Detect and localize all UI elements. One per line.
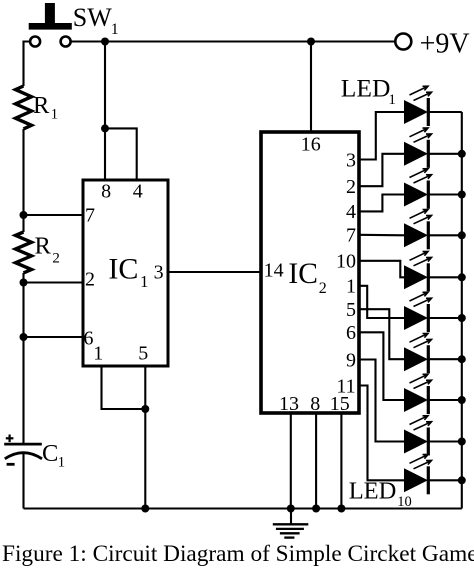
wire pin 1 to node E: [102, 366, 146, 409]
junction cathode rail LED4: [458, 231, 466, 239]
svg-text:6: 6: [346, 322, 356, 344]
pin 6 label IC2: [346, 322, 356, 344]
label LED10: [349, 477, 412, 510]
switch SW1: [29, 3, 72, 47]
resistor R1: [16, 86, 32, 129]
svg-text:1: 1: [140, 272, 149, 291]
wire node A to R2: [22, 215, 24, 232]
svg-text:9: 9: [346, 349, 356, 371]
pin 8 label IC2: [310, 393, 320, 415]
wire switch left lead: [24, 42, 31, 87]
pin 7 label IC1: [85, 204, 95, 226]
svg-text:3: 3: [154, 261, 164, 283]
svg-text:1: 1: [51, 106, 59, 122]
junction cathode rail LED5: [458, 273, 466, 281]
junction node E (pins 1-5): [141, 405, 149, 413]
svg-text:3: 3: [346, 149, 356, 171]
wire pin 7 to LED4: [359, 234, 405, 237]
wire bottom rail: [24, 507, 462, 509]
LED D1: [405, 86, 462, 126]
wire pin 15 to ground rail: [340, 413, 342, 509]
wire pin 1 to LED6: [359, 286, 405, 318]
junction cathode rail LED6: [458, 314, 466, 322]
wire pin6 stub: [24, 336, 84, 338]
svg-text:1: 1: [58, 455, 66, 471]
wire right cathode rail: [461, 112, 463, 509]
svg-text:C: C: [42, 440, 58, 467]
wire node B to node C: [22, 283, 24, 338]
LED D10: [405, 455, 462, 495]
label SW1: [73, 3, 119, 38]
wire R1 to node A: [22, 129, 24, 215]
pin 4 label IC2: [346, 201, 356, 223]
wire pin2 stub: [24, 281, 84, 283]
pin 2 label IC1: [85, 268, 95, 290]
pin 16 label IC2: [301, 133, 321, 155]
junction node pin8 ground: [312, 505, 320, 513]
LED D9: [405, 416, 462, 456]
svg-text:14: 14: [264, 259, 284, 281]
wire top rail: [71, 40, 396, 42]
label IC2: [288, 258, 326, 297]
counter U2 IC2 box: [261, 132, 359, 413]
junction cathode rail LED8: [458, 396, 466, 404]
junction cathode rail LED10: [458, 476, 466, 484]
pin 1 label IC2: [346, 276, 356, 298]
junction node SW1 output: [101, 38, 109, 46]
svg-text:LED: LED: [349, 477, 397, 504]
svg-text:1: 1: [93, 343, 103, 365]
svg-text:4: 4: [133, 181, 143, 203]
junction node pin13 ground: [287, 505, 295, 513]
svg-text:2: 2: [85, 268, 95, 290]
svg-text:1: 1: [388, 92, 396, 108]
svg-text:5: 5: [138, 343, 148, 365]
svg-text:5: 5: [346, 299, 356, 321]
junction node B (pin 2): [20, 279, 28, 287]
LED D8: [405, 374, 462, 414]
wire pin 4 to LED3: [359, 195, 405, 212]
wire pin 6 to LED8: [359, 332, 405, 400]
pin 2 label IC2: [346, 176, 356, 198]
pin 14 label IC2: [264, 259, 284, 281]
junction cathode rail LED2: [458, 150, 466, 158]
wire node D to pin 8: [104, 128, 106, 180]
svg-text:13: 13: [279, 393, 299, 415]
LED D7: [405, 333, 462, 373]
svg-text:7: 7: [346, 225, 356, 247]
pin 15 label IC2: [330, 393, 350, 415]
label IC1: [108, 253, 148, 291]
wire pin 10 to LED5: [359, 261, 405, 278]
pin 1 label IC1: [93, 343, 103, 365]
junction node D (pins 8-4): [101, 124, 109, 132]
svg-text:2: 2: [52, 251, 60, 267]
wire SW1 node to node D: [104, 42, 106, 129]
pin 6 label IC1: [84, 328, 94, 350]
junction cathode rail LED9: [458, 438, 466, 446]
junction node pin5 ground: [141, 505, 149, 513]
junction cathode rail LED3: [458, 191, 466, 199]
label +9V: [420, 28, 470, 59]
pin 7 label IC2: [346, 225, 356, 247]
svg-text:1: 1: [111, 21, 119, 38]
pin 5 label IC2: [346, 299, 356, 321]
wire top rail to pin 16: [310, 42, 312, 133]
ground: [273, 509, 309, 538]
pin 8 label IC1: [101, 181, 111, 203]
svg-text:R: R: [35, 232, 52, 259]
LED D4: [405, 210, 462, 250]
wire pin 13 to ground rail: [290, 413, 292, 509]
wire pin 11 to LED10: [359, 386, 405, 481]
wire R2 to node B: [22, 273, 24, 283]
svg-text:6: 6: [84, 328, 94, 350]
pin 10 label IC2: [336, 251, 356, 273]
pin 11 label IC2: [336, 375, 355, 397]
svg-text:11: 11: [336, 375, 355, 397]
wire pin 5 to LED7: [359, 309, 405, 359]
wire pin 2 to LED2: [359, 154, 405, 186]
pin 4 label IC1: [133, 181, 143, 203]
svg-text:1: 1: [346, 276, 356, 298]
junction node A (pin 7): [20, 211, 28, 219]
junction cathode rail LED7: [458, 355, 466, 363]
svg-text:R: R: [33, 92, 50, 119]
wire node C to C1: [22, 337, 24, 445]
svg-text:Figure 1: Circuit Diagram of S: Figure 1: Circuit Diagram of Simple Circ…: [2, 541, 474, 567]
junction node C (pin 6): [20, 333, 28, 341]
resistor R2: [16, 232, 32, 273]
svg-text:16: 16: [301, 133, 321, 155]
LED D2: [405, 128, 462, 168]
label C1: [42, 440, 65, 471]
op-amp U1 IC1 box: [83, 180, 168, 366]
pin 5 label IC1: [138, 343, 148, 365]
svg-text:8: 8: [101, 181, 111, 203]
pin 9 label IC2: [346, 349, 356, 371]
svg-text:10: 10: [397, 494, 412, 510]
svg-text:4: 4: [346, 201, 356, 223]
caption: [2, 541, 474, 567]
pin 13 label IC2: [279, 393, 299, 415]
label R2: [35, 232, 60, 266]
wire pin 3 to pin 14: [168, 271, 261, 273]
wire node D to pin 4: [105, 128, 137, 180]
capacitor C1: [4, 435, 42, 465]
LED D3: [405, 169, 462, 209]
wire pin 9 to LED9: [359, 360, 405, 442]
junction node supply to pin16: [307, 38, 315, 46]
svg-text:2: 2: [319, 280, 327, 297]
svg-text:+9V: +9V: [420, 28, 470, 59]
LED D5: [405, 252, 462, 292]
LED D6: [405, 292, 462, 332]
wire pin7 stub: [24, 214, 84, 216]
wire pin 3 to LED1: [359, 112, 405, 160]
svg-text:LED: LED: [341, 73, 391, 102]
label R1: [33, 92, 58, 123]
pin 3 label IC2: [346, 149, 356, 171]
svg-text:IC: IC: [108, 253, 138, 286]
svg-text:8: 8: [310, 393, 320, 415]
junction node pin15 ground: [337, 505, 345, 513]
svg-text:2: 2: [346, 176, 356, 198]
label LED1: [341, 73, 396, 108]
wire pin 5 to bottom rail: [144, 366, 146, 509]
terminal +9V: [395, 34, 411, 50]
wire pin 8 to ground rail: [315, 413, 317, 509]
pin 3 label IC1: [154, 261, 164, 283]
svg-text:10: 10: [336, 251, 356, 273]
svg-text:7: 7: [85, 204, 95, 226]
wire C1 to bottom rail: [22, 452, 24, 509]
svg-text:SW: SW: [73, 3, 112, 32]
svg-text:IC: IC: [288, 258, 318, 290]
